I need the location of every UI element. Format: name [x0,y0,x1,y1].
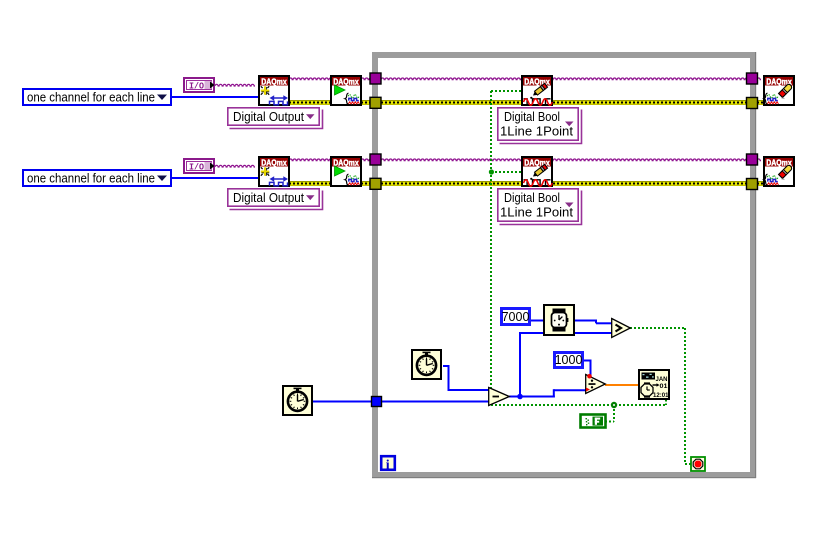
svg-text:01: 01 [660,383,668,390]
svg-text:one channel for each line: one channel for each line [27,172,155,186]
svg-text:JAN: JAN [656,376,668,383]
svg-text:Digital Bool: Digital Bool [504,109,560,124]
svg-text:1000: 1000 [555,353,583,367]
svg-text:DAQmx: DAQmx [261,77,287,87]
svg-text:Digital Bool: Digital Bool [504,190,560,205]
svg-text:7000: 7000 [502,310,530,324]
svg-text:DAQmx: DAQmx [261,158,287,168]
svg-text:one channel for each line: one channel for each line [27,91,155,105]
svg-text:Digital Output: Digital Output [233,190,304,205]
svg-text:I/O: I/O [189,163,205,173]
svg-text:i: i [386,458,390,473]
svg-text:DAQmx: DAQmx [333,158,359,168]
svg-text:1Line 1Point: 1Line 1Point [500,205,573,220]
svg-text:I/O: I/O [189,82,205,92]
svg-text:1Line 1Point: 1Line 1Point [500,124,573,139]
svg-text:Digital Output: Digital Output [233,109,304,124]
svg-text:12:01: 12:01 [653,392,669,399]
svg-text:DAQmx: DAQmx [333,77,359,87]
